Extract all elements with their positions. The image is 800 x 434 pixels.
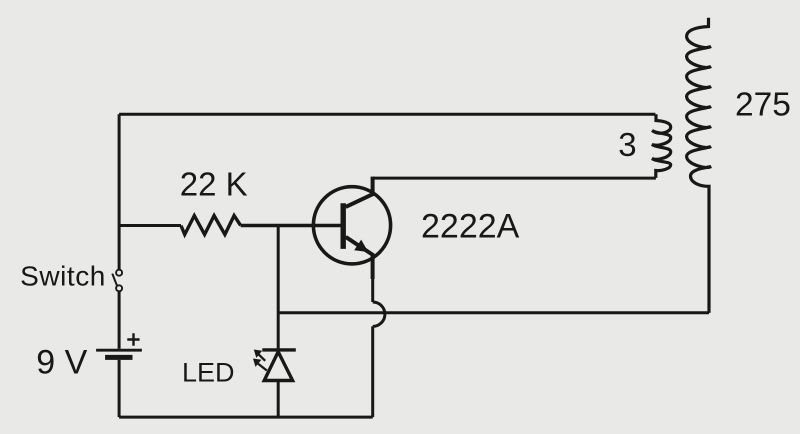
svg-text:22 K: 22 K [180,166,248,203]
svg-text:9 V: 9 V [36,343,87,381]
svg-text:2222A: 2222A [421,208,520,246]
svg-text:LED: LED [182,358,235,388]
svg-text:Switch: Switch [20,260,106,291]
svg-text:3: 3 [618,126,636,163]
svg-text:275: 275 [735,87,791,124]
